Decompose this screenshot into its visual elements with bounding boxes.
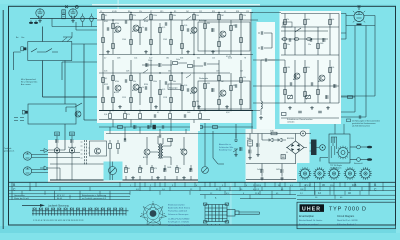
wire <box>257 134 259 154</box>
svg-text:Aufnahme: Aufnahme <box>199 19 207 22</box>
vertical links W1 to W5 <box>110 120 205 141</box>
resistor R505 <box>109 143 112 148</box>
resistor R301 <box>347 96 352 99</box>
ground <box>225 105 228 108</box>
comb circles <box>34 208 123 210</box>
tiny dashes below J4 <box>14 118 24 121</box>
cap C119 <box>184 114 186 118</box>
svg-text:470k: 470k <box>115 81 119 83</box>
resistor R144 <box>109 113 112 118</box>
resistor R137 <box>218 75 221 80</box>
svg-text:2 x 2: 2 x 2 <box>305 183 311 187</box>
resistor R201 <box>284 19 287 24</box>
svg-text:2,2k: 2,2k <box>184 85 187 87</box>
svg-text:4,7k: 4,7k <box>162 27 165 29</box>
cap C101 <box>107 27 109 31</box>
wire bottom row <box>281 117 339 119</box>
capsule R215 <box>282 38 287 41</box>
svg-text:R122: R122 <box>104 84 108 86</box>
resistor R209 <box>304 91 307 96</box>
table verticals left <box>12 182 110 199</box>
svg-text:5/15: 5/15 <box>160 11 163 13</box>
switch S301 <box>213 158 224 164</box>
cap C114 <box>235 84 237 88</box>
wire box to W1 <box>72 43 97 45</box>
resistor R203 <box>329 19 332 24</box>
white paper patch W3 (oscillator block) <box>280 11 342 124</box>
svg-text:50/15: 50/15 <box>276 169 280 171</box>
ground <box>259 116 262 119</box>
svg-text:AF117: AF117 <box>318 80 323 83</box>
cap C501 <box>164 168 166 172</box>
resistor R117 <box>218 14 221 19</box>
wire loop rectangle <box>346 16 375 26</box>
svg-text:R18: R18 <box>236 11 239 13</box>
cap C105 <box>187 28 189 32</box>
wire vertical left <box>83 44 85 120</box>
wire <box>310 143 320 151</box>
resistor R135 <box>193 101 196 106</box>
svg-text:56k: 56k <box>173 81 176 83</box>
svg-text:68k: 68k <box>233 85 236 87</box>
resistor R146 <box>139 113 142 118</box>
resistor R102 <box>102 37 105 42</box>
input arrow jack 1 <box>40 149 48 153</box>
fuse F1 <box>271 132 277 135</box>
svg-text:Bitte bei Bestell. Nr. Geräte-: Bitte bei Bestell. Nr. Geräte- <box>299 219 323 222</box>
ground bold <box>29 21 33 24</box>
svg-text:1k: 1k <box>142 87 144 89</box>
resistor R152 <box>212 126 217 129</box>
svg-text:47k: 47k <box>286 19 289 21</box>
wire from W3 top <box>341 14 346 16</box>
table line 5 <box>9 197 396 200</box>
svg-text:5,6k: 5,6k <box>331 19 334 21</box>
svg-text:470: 470 <box>154 168 157 170</box>
wire rails lower <box>113 60 241 110</box>
svg-text:R15: R15 <box>212 11 215 13</box>
ground <box>118 105 121 108</box>
X mark <box>65 5 68 8</box>
svg-text:0,1: 0,1 <box>105 15 107 17</box>
svg-text:Gemessene: Gemessene <box>14 195 26 197</box>
resistor R204 <box>284 43 287 48</box>
wire <box>99 126 253 128</box>
svg-text:R130: R130 <box>144 84 148 86</box>
svg-text:0,5/35: 0,5/35 <box>112 11 117 13</box>
resistor R506 <box>117 143 120 148</box>
cap C205 <box>310 38 312 42</box>
medallion star <box>140 201 167 226</box>
subtle edge shading <box>0 0 400 4</box>
svg-text:78: 78 <box>244 58 246 60</box>
svg-text:1k: 1k <box>179 168 181 170</box>
svg-text:0,1: 0,1 <box>224 11 226 13</box>
resistor R503 <box>151 167 154 172</box>
cap C202 <box>261 46 263 50</box>
meter M1 <box>202 167 209 174</box>
resistor R501 <box>125 167 128 172</box>
note box <box>282 113 287 116</box>
transistor T108 <box>220 90 226 96</box>
svg-text:AC107: AC107 <box>114 91 119 94</box>
svg-text:15k: 15k <box>243 77 246 79</box>
wires <box>147 136 184 165</box>
tiny labels above J1 <box>16 37 25 39</box>
wires crossing gap to W2 <box>250 13 285 111</box>
component stack 1 <box>54 132 59 180</box>
transistor T104 <box>220 31 226 37</box>
cap C212 <box>326 95 328 99</box>
svg-text:8 München Postfach 2: 8 München Postfach 2 <box>337 223 356 226</box>
svg-text:verbinden: verbinden <box>287 121 294 124</box>
switch S1 inside box <box>31 49 58 53</box>
amp box outline <box>90 141 107 156</box>
ground <box>234 153 237 156</box>
svg-text:geräteansch.: geräteansch. <box>4 150 15 153</box>
trimmer R213 <box>305 95 310 100</box>
resistor R123 <box>102 97 105 102</box>
ground <box>288 106 291 109</box>
head shaft <box>227 210 235 217</box>
cap C109 <box>125 79 127 83</box>
svg-text:UHER: UHER <box>302 206 321 212</box>
wire <box>249 134 251 157</box>
resistor R147 <box>169 113 172 118</box>
bridge rectifier B1 <box>287 141 304 154</box>
resistor R110 <box>159 27 162 32</box>
component stack 2 <box>69 132 74 180</box>
cap C103 <box>145 27 147 31</box>
svg-text:Mit = Spurwechsel: Mit = Spurwechsel <box>21 78 36 81</box>
title block box <box>297 202 396 229</box>
resistor R143 <box>187 65 192 68</box>
svg-text:25/15: 25/15 <box>148 60 152 62</box>
label box <box>168 84 181 90</box>
svg-text:68k: 68k <box>233 25 236 27</box>
resistor R136 <box>204 83 207 88</box>
cap C110 <box>145 86 147 90</box>
wire right lower <box>350 159 357 161</box>
svg-text:4,7: 4,7 <box>104 58 106 60</box>
record head grid drawing <box>203 203 259 225</box>
svg-text:Elektronenstrahler: Elektronenstrahler <box>168 204 185 207</box>
resistor R131 <box>159 89 162 94</box>
svg-text:50/6: 50/6 <box>187 112 190 114</box>
svg-text:12k: 12k <box>139 11 142 13</box>
svg-text:21 B: 21 B <box>255 193 260 195</box>
regulator labels <box>330 162 363 170</box>
wire <box>260 60 262 115</box>
switch diagonals <box>143 17 191 79</box>
svg-text:10/3: 10/3 <box>216 71 219 73</box>
label box <box>283 22 292 27</box>
wire third bus <box>76 22 97 30</box>
cap C211 <box>318 111 322 113</box>
svg-text:an Punkt A - gemessen 6,3: an Punkt A - gemessen 6,3 <box>82 197 107 200</box>
svg-text:100: 100 <box>127 168 130 170</box>
resistor R103 <box>112 23 115 28</box>
svg-text:AC117: AC117 <box>219 36 224 39</box>
driver transformer <box>158 144 159 158</box>
resistor R139 <box>230 85 233 90</box>
white tongue below W1 <box>190 123 200 131</box>
svg-text:AC122: AC122 <box>132 30 137 33</box>
wire <box>84 119 97 121</box>
rosette V4 <box>344 167 357 180</box>
relay box lower <box>28 104 76 124</box>
svg-text:330k: 330k <box>306 67 310 69</box>
svg-text:0,1: 0,1 <box>157 112 159 114</box>
title block small text <box>299 215 354 218</box>
resistor R129 <box>150 75 153 80</box>
svg-text:TYP 700 Regler: TYP 700 Regler <box>330 164 342 167</box>
svg-text:Netz: Netz <box>247 137 251 140</box>
transistor T106 <box>133 84 139 90</box>
svg-text:25/6: 25/6 <box>117 58 120 60</box>
resistor R206 <box>284 67 287 72</box>
connector DIN J2 <box>23 152 31 160</box>
connector DIN J3 <box>23 167 31 175</box>
ground tall <box>234 133 238 142</box>
ground <box>248 156 251 159</box>
svg-text:R9: R9 <box>174 11 176 13</box>
gear wheel <box>338 148 348 158</box>
ground <box>260 177 263 180</box>
resistor R507 <box>167 139 172 142</box>
svg-text:120k: 120k <box>153 81 157 83</box>
transistor T103 <box>191 27 197 33</box>
resistor R502 <box>139 167 142 172</box>
cap C209 <box>334 84 336 88</box>
switch S2 <box>66 103 82 112</box>
connector plug J4 <box>22 110 25 114</box>
wire mid bus <box>281 54 339 56</box>
resistor R111 <box>170 14 173 19</box>
switch above box <box>62 32 72 42</box>
regulator box <box>329 134 350 163</box>
cap C502 <box>190 168 192 172</box>
svg-text:Bk 45: Bk 45 <box>57 198 63 200</box>
transistor T202 <box>319 75 325 81</box>
svg-text:Poznamka: polohách: Poznamka: polohách <box>168 211 187 213</box>
wire long bus 86 <box>253 85 339 87</box>
tube V101 <box>36 9 44 17</box>
wire right upper <box>350 146 357 148</box>
motor circle <box>320 145 326 151</box>
wire row31 <box>281 30 328 32</box>
plug circle 1 <box>357 145 361 149</box>
svg-text:1,2M: 1,2M <box>286 67 290 69</box>
transistor T201 <box>294 73 300 79</box>
svg-text:1k: 1k <box>142 27 144 29</box>
resistor R145 <box>124 113 127 118</box>
cap C401 <box>249 150 251 154</box>
cap C206 <box>323 38 325 42</box>
rosette V5 <box>359 167 372 180</box>
ground <box>154 105 157 108</box>
cap C113 <box>212 88 214 92</box>
resistor R116 <box>204 23 207 28</box>
svg-text:33k: 33k <box>197 58 200 60</box>
stacked component K1 <box>62 10 66 14</box>
wire row39 <box>281 38 328 40</box>
svg-text:R3: R3 <box>128 11 130 13</box>
wire branch <box>62 62 97 80</box>
cyan meter patch <box>104 162 123 181</box>
svg-text:Ein-: Ein- <box>22 37 25 39</box>
ground <box>310 106 313 109</box>
wire rails <box>285 14 339 104</box>
wires from connectors <box>32 155 48 173</box>
wire horizontals to block <box>341 33 375 117</box>
resistor R119 <box>230 25 233 30</box>
capsule R217 <box>307 38 312 41</box>
resistor R118 <box>218 41 221 46</box>
rosette V2 <box>313 167 326 180</box>
svg-text:Ersatzteilplan: Ersatzteilplan <box>299 215 315 218</box>
svg-text:AC122: AC122 <box>132 89 137 92</box>
capsule C3 <box>90 16 93 22</box>
svg-text:Netzanschl.: Netzanschl. <box>354 162 363 165</box>
svg-text:0,35: 0,35 <box>104 71 107 73</box>
resistor R150 <box>117 126 122 129</box>
W1 tiny labels <box>100 11 249 116</box>
wire top bus <box>30 18 97 20</box>
ground <box>38 19 41 22</box>
svg-text:AF117: AF117 <box>293 78 298 81</box>
resistor R130 <box>150 97 153 102</box>
transistor T101 <box>115 26 121 32</box>
diode D2 <box>276 138 286 142</box>
title block divider above <box>315 182 370 194</box>
cap C130 <box>134 125 136 129</box>
output tube V103 <box>354 12 364 22</box>
svg-text:AC128: AC128 <box>180 148 185 151</box>
connector plug J1 <box>21 47 24 51</box>
meter M2 <box>109 167 117 175</box>
wires from connectors to head <box>48 148 90 158</box>
svg-text:8,2k: 8,2k <box>331 67 334 69</box>
wire mid bus <box>99 54 253 56</box>
cap C104 <box>165 22 167 26</box>
ground <box>256 153 259 156</box>
svg-text:10n: 10n <box>287 44 290 46</box>
transistor T301 <box>144 149 150 155</box>
trimmer R212 <box>287 95 292 100</box>
svg-text:Kombikopf: Kombikopf <box>68 147 77 149</box>
resistor R208 <box>304 67 307 72</box>
wire tube legs <box>39 17 75 19</box>
wire across gap <box>198 111 252 134</box>
resistor R125 <box>112 97 115 102</box>
arrow to component <box>233 150 237 153</box>
page edge line left <box>2 10 4 229</box>
svg-text:TYP 7000 D: TYP 7000 D <box>329 206 367 212</box>
ground <box>144 50 147 53</box>
wire verticals <box>341 26 375 118</box>
resistor R132 <box>170 75 173 80</box>
resistor R141 <box>240 99 243 104</box>
cap C302 <box>240 147 242 151</box>
svg-text:470: 470 <box>127 114 130 116</box>
rosette V1 <box>299 167 312 180</box>
svg-text:2,2k: 2,2k <box>184 25 187 27</box>
resistor R205 <box>317 43 320 48</box>
wire bottom bus <box>99 110 253 112</box>
motor circle small <box>300 131 305 136</box>
resistor R115 <box>193 14 196 19</box>
svg-text:AC122: AC122 <box>190 32 195 35</box>
cap C108 <box>107 86 109 90</box>
svg-text:0,22: 0,22 <box>149 58 152 60</box>
svg-text:Schema in Stereo-pos.: Schema in Stereo-pos. <box>168 213 189 216</box>
cap C112 <box>187 88 189 92</box>
cap C208 <box>311 82 313 86</box>
svg-text:22k: 22k <box>133 15 136 17</box>
cap C204 <box>289 38 291 42</box>
white paper patch W1 (left amplifier block) <box>97 9 252 123</box>
svg-text:Circuit Diagram: Circuit Diagram <box>337 215 354 218</box>
W4 labels <box>247 130 294 172</box>
svg-text:Aus = mono: Aus = mono <box>21 83 31 86</box>
svg-text:Bandstep Oval: Bandstep Oval <box>219 149 232 152</box>
cap C201 <box>261 31 263 35</box>
table line 1 <box>9 181 396 183</box>
tube cathode bar <box>357 24 362 26</box>
svg-text:R108: R108 <box>144 21 148 23</box>
wire lower mid bus <box>99 72 230 74</box>
svg-text:22k: 22k <box>133 81 136 83</box>
table line 2 <box>9 186 396 188</box>
wire bottom bus <box>281 102 339 104</box>
resistor R109 <box>150 39 153 44</box>
wire vertical feeds <box>48 61 65 151</box>
cap C117 <box>204 62 206 66</box>
svg-text:R101: R101 <box>104 21 108 23</box>
cap C111 <box>165 81 167 85</box>
component box K401 <box>248 140 253 146</box>
svg-text:C7: C7 <box>150 11 152 13</box>
svg-text:AC117: AC117 <box>143 156 148 159</box>
arrow note line <box>22 204 69 208</box>
ground <box>326 106 329 109</box>
svg-text:56k: 56k <box>173 15 176 17</box>
transistor T300 <box>95 148 101 154</box>
head coil dashed column <box>81 140 87 164</box>
resistor R142 <box>172 62 177 65</box>
cap C115 <box>146 63 148 67</box>
transistor T302 <box>181 149 187 155</box>
rosette V3 <box>328 167 341 180</box>
cable lug 2 <box>367 158 372 161</box>
ground bold <box>34 21 38 24</box>
table line 3 <box>9 190 396 192</box>
note text right <box>352 120 380 128</box>
svg-text:10k: 10k <box>196 101 199 103</box>
svg-text:470k: 470k <box>115 23 119 25</box>
note text 2 lines <box>4 148 15 153</box>
svg-text:C12: C12 <box>199 11 202 13</box>
wire bottom row <box>99 111 210 120</box>
cap C116 <box>159 63 161 67</box>
resistor R133 <box>170 97 173 102</box>
svg-text:Werth Str.29 u.L. 8622/8: Werth Str.29 u.L. 8622/8 <box>337 219 357 222</box>
svg-text:1 2 3 4 5 6 7 8 9 10 11 12 13: 1 2 3 4 5 6 7 8 9 10 11 12 13 14 15 16 1… <box>33 220 83 222</box>
resistor R106 <box>130 39 133 44</box>
cap C404 <box>261 169 263 173</box>
UHER logo <box>300 204 325 212</box>
